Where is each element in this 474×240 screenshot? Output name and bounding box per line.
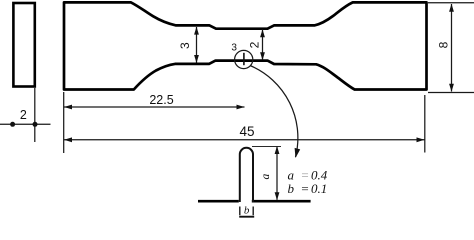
svg-text:3: 3	[231, 42, 237, 53]
dimension 8 (specimen width) line	[451, 4, 453, 92]
svg-text:b: b	[244, 204, 250, 216]
svg-text:45: 45	[239, 124, 254, 139]
leader arc from circle to detail view	[250, 66, 298, 158]
a-dim vertical line	[276, 147, 278, 200]
svg-text:a: a	[260, 173, 272, 179]
svg-text:2: 2	[20, 108, 27, 122]
svg-text:2: 2	[248, 41, 262, 48]
detail circle around notch	[235, 50, 253, 68]
top extension line (right end)	[428, 2, 474, 4]
dimension 3 (gauge width) line	[196, 27, 198, 63]
b-dim extension ticks	[239, 207, 241, 216]
svg-text:b=0.1: b=0.1	[288, 181, 328, 196]
svg-text:8: 8	[436, 41, 450, 48]
b-dim bottom bar	[239, 216, 254, 218]
svg-text:3: 3	[178, 42, 192, 49]
notch tick inside circle	[243, 53, 245, 65]
left extension line (specimen left edge)	[63, 92, 65, 153]
extension line from end-view right edge	[34, 88, 36, 142]
dimension 2 (notch section width) line	[262, 30, 264, 60]
specimen outline	[64, 2, 427, 89]
notch slot (U shape)	[240, 148, 253, 202]
detail view surface line (left segment)	[198, 200, 239, 203]
bottom extension line (right end)	[428, 92, 474, 94]
right extension line (specimen right edge)	[424, 95, 426, 153]
dimension 45 line	[64, 139, 425, 141]
end view rectangle (2 thick plate)	[13, 3, 34, 87]
dimension 2 (thickness) line with dots	[0, 123, 51, 125]
detail view surface line (right segment)	[252, 200, 311, 203]
dimension 22.5 line	[64, 106, 245, 108]
svg-text:22.5: 22.5	[149, 93, 173, 107]
a-dim top extension line	[252, 146, 281, 148]
